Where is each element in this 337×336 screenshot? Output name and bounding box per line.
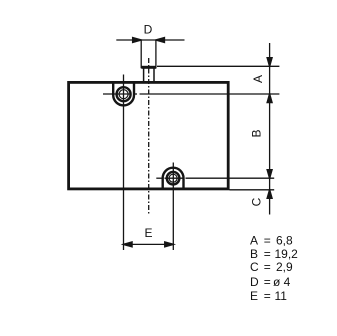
svg-text:=: = xyxy=(264,275,271,289)
svg-text:=: = xyxy=(264,289,271,303)
svg-text:6,8: 6,8 xyxy=(276,233,293,247)
svg-text:D: D xyxy=(144,23,153,37)
svg-text:2,9: 2,9 xyxy=(276,260,293,274)
svg-text:B: B xyxy=(249,129,263,137)
svg-text:E: E xyxy=(250,289,258,303)
svg-text:11: 11 xyxy=(275,289,288,303)
svg-text:ø 4: ø 4 xyxy=(273,275,291,289)
svg-text:C: C xyxy=(250,197,264,206)
svg-text:D: D xyxy=(250,275,259,289)
svg-text:C: C xyxy=(250,260,259,274)
svg-text:A: A xyxy=(250,233,258,247)
svg-text:=: = xyxy=(264,260,271,274)
svg-text:A: A xyxy=(251,75,265,83)
svg-text:E: E xyxy=(144,226,152,240)
svg-text:=: = xyxy=(264,233,271,247)
